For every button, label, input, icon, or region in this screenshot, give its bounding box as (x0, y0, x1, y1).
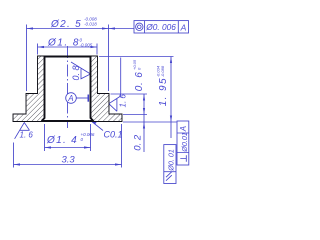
svg-text:Ø0. 006: Ø0. 006 (145, 22, 176, 32)
svg-text:-0.005: -0.005 (80, 43, 93, 48)
svg-text:0: 0 (81, 137, 84, 142)
svg-text:-0.018: -0.018 (84, 21, 97, 26)
svg-text:Ø1. 8: Ø1. 8 (47, 37, 80, 48)
svg-text:Ø0.01: Ø0.01 (180, 132, 189, 153)
svg-text:A: A (179, 126, 188, 132)
svg-text:A: A (67, 94, 73, 103)
svg-text:Ø2. 5: Ø2. 5 (50, 19, 82, 30)
svg-text:C0.1: C0.1 (104, 130, 123, 140)
svg-text:Ø0. 01: Ø0. 01 (167, 149, 176, 172)
svg-text:Ø1. 4: Ø1. 4 (46, 135, 78, 146)
svg-text:0. 6: 0. 6 (134, 71, 145, 91)
svg-text:-0.088: -0.088 (160, 65, 165, 77)
svg-text:0: 0 (137, 67, 142, 70)
svg-text:0. 2: 0. 2 (132, 134, 143, 151)
svg-text:1. 6: 1. 6 (118, 94, 127, 108)
svg-text:A: A (180, 22, 187, 32)
svg-text:3.3: 3.3 (62, 154, 76, 165)
svg-text:1. 6: 1. 6 (20, 131, 34, 140)
svg-text:1. 95: 1. 95 (158, 77, 169, 106)
svg-text:0. 8: 0. 8 (71, 65, 81, 80)
